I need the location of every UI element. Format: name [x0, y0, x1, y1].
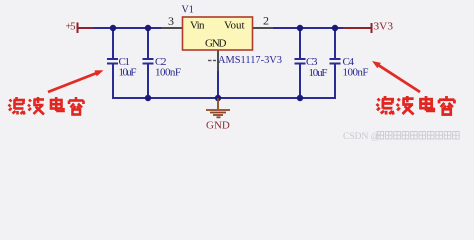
svg-text:10uF: 10uF [119, 67, 137, 79]
svg-text:GND: GND [205, 38, 227, 50]
svg-text:V1: V1 [182, 5, 194, 16]
svg-text:GND: GND [206, 120, 230, 132]
svg-text:2: 2 [263, 14, 269, 28]
svg-text:Vin: Vin [190, 20, 205, 32]
svg-text:10uF: 10uF [309, 67, 328, 79]
svg-text:+5: +5 [66, 21, 76, 32]
svg-text:3: 3 [168, 14, 174, 28]
svg-text:100nF: 100nF [155, 67, 181, 79]
svg-text:100nF: 100nF [343, 67, 369, 79]
svg-text:3V3: 3V3 [374, 22, 394, 33]
svg-text:Vout: Vout [224, 20, 245, 32]
svg-text:CSDN @: CSDN @ [343, 132, 380, 142]
svg-text:AMS1117-3V3: AMS1117-3V3 [218, 54, 282, 66]
